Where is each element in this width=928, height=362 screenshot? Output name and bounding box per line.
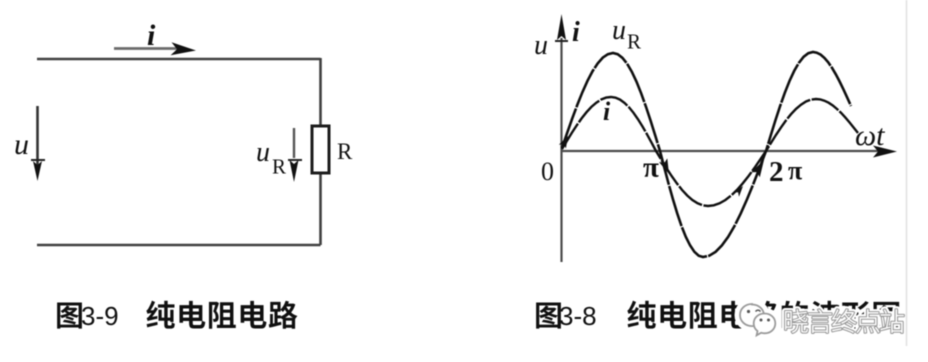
svg-text:u: u	[612, 15, 626, 46]
svg-text:3-8: 3-8	[559, 301, 597, 331]
svg-text:R: R	[337, 139, 353, 164]
svg-text:R: R	[627, 30, 641, 54]
svg-text:i: i	[572, 17, 580, 48]
svg-text:3-9: 3-9	[81, 301, 119, 331]
svg-text:0: 0	[541, 157, 554, 186]
svg-text:u: u	[256, 137, 270, 168]
svg-text:u: u	[534, 30, 548, 61]
svg-text:u: u	[14, 128, 29, 161]
svg-text:i: i	[603, 97, 611, 126]
svg-text:2: 2	[769, 156, 784, 188]
svg-text:ωt: ωt	[855, 119, 885, 152]
svg-text:R: R	[272, 155, 286, 179]
svg-text:i: i	[147, 19, 156, 52]
svg-text:π: π	[643, 152, 659, 184]
svg-text:π: π	[788, 156, 802, 185]
